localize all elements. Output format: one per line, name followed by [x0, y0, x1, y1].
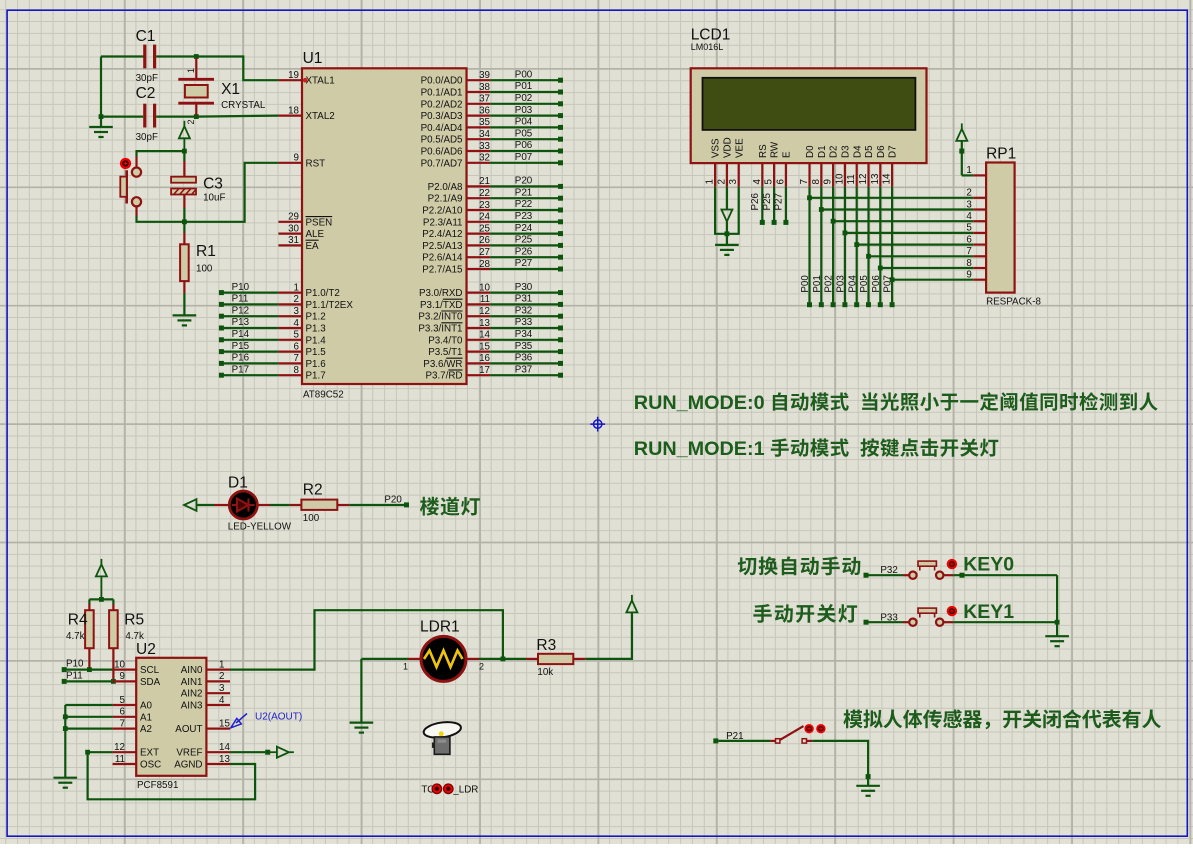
svg-text:1: 1 — [219, 659, 224, 670]
wire A1 to ground rail — [65, 716, 112, 718]
svg-text:P1.0/T2: P1.0/T2 — [306, 288, 340, 299]
svg-text:P1.5: P1.5 — [306, 347, 327, 358]
svg-text:D3: D3 — [841, 145, 852, 158]
svg-text:OSC: OSC — [140, 760, 161, 771]
svg-text:P0.1/AD1: P0.1/AD1 — [421, 88, 463, 99]
svg-text:P11: P11 — [66, 670, 83, 681]
annotation 模拟人体传感器 — [843, 710, 862, 729]
terminal P25 — [490, 244, 558, 246]
wire net D6 to RP1 pin 8 and terminal P06 — [879, 187, 881, 303]
svg-text:P0.3/AD3: P0.3/AD3 — [421, 111, 463, 122]
terminal P34 — [490, 339, 558, 341]
svg-text:P23: P23 — [515, 211, 533, 222]
svg-text:ALE: ALE — [306, 229, 325, 240]
svg-text:P25: P25 — [515, 235, 533, 246]
svg-text:P1.4: P1.4 — [306, 335, 327, 346]
origin marker — [594, 420, 602, 428]
svg-text:6: 6 — [294, 341, 300, 352]
terminal P10 — [62, 667, 67, 672]
svg-text:VDD: VDD — [723, 137, 734, 158]
svg-text:P04: P04 — [515, 117, 533, 128]
svg-text:RST: RST — [306, 158, 326, 169]
terminal P12 — [224, 315, 279, 317]
svg-text:RS: RS — [758, 144, 769, 158]
svg-text:8: 8 — [811, 179, 822, 185]
svg-text:P0.2/AD2: P0.2/AD2 — [421, 99, 463, 110]
svg-text:7: 7 — [294, 353, 299, 364]
svg-text:39: 39 — [479, 70, 490, 81]
wire LCD VEE to ground — [727, 187, 739, 234]
resistor R5 — [109, 610, 118, 648]
terminal P26 — [490, 256, 558, 258]
svg-text:3: 3 — [294, 306, 300, 317]
svg-text:1: 1 — [186, 68, 196, 73]
svg-text:6: 6 — [966, 234, 972, 245]
svg-text:12: 12 — [479, 306, 490, 317]
terminal P26 — [761, 187, 763, 220]
svg-text:P33: P33 — [515, 317, 533, 328]
svg-text:R3: R3 — [536, 637, 556, 654]
node junction pullup rail — [99, 597, 104, 602]
power VDD down-arrow wire — [726, 187, 728, 210]
svg-text:P3.7/RD: P3.7/RD — [425, 371, 462, 382]
svg-text:P1.7: P1.7 — [306, 371, 326, 382]
svg-text:EXT: EXT — [140, 748, 159, 759]
svg-text:P2.3/A11: P2.3/A11 — [423, 217, 463, 228]
LCD LCD1 LM016L — [691, 68, 927, 163]
wire C1 right to XTAL1 node — [156, 55, 196, 57]
svg-text:12: 12 — [114, 742, 125, 753]
svg-text:P1.3: P1.3 — [306, 324, 327, 335]
svg-text:P36: P36 — [515, 353, 533, 364]
svg-text:P07: P07 — [883, 275, 894, 292]
svg-text:11: 11 — [846, 174, 857, 184]
terminal P03 — [490, 114, 558, 116]
ground (U2 address) — [54, 777, 78, 779]
svg-text:_LDR: _LDR — [452, 784, 478, 795]
svg-text:D7: D7 — [888, 145, 899, 158]
svg-text:D1: D1 — [228, 475, 248, 492]
svg-text:22: 22 — [479, 188, 490, 199]
svg-text:CRYSTAL: CRYSTAL — [221, 100, 266, 111]
svg-text:P0.6/AD6: P0.6/AD6 — [421, 147, 463, 158]
svg-text:SDA: SDA — [140, 677, 161, 688]
wire C2 right to XTAL2 node — [156, 115, 196, 117]
svg-text:P00: P00 — [800, 275, 811, 293]
svg-text:38: 38 — [479, 82, 490, 93]
svg-text:P1.1/T2EX: P1.1/T2EX — [306, 300, 354, 311]
power +5V (RP1) — [956, 129, 967, 141]
terminal P20 — [349, 504, 404, 506]
svg-text:14: 14 — [479, 330, 490, 341]
wire RST net — [184, 163, 278, 222]
svg-text:23: 23 — [479, 200, 490, 211]
wire arrow to D1 — [197, 504, 215, 506]
wire KEY0 to ground net — [960, 573, 965, 578]
svg-text:1: 1 — [294, 282, 299, 293]
svg-text:LM016L: LM016L — [691, 42, 724, 52]
annotation 切换自动手动 — [738, 557, 757, 575]
svg-text:SCL: SCL — [140, 665, 160, 676]
terminal P27 — [785, 187, 787, 220]
terminal P35 — [490, 351, 558, 353]
wire LDR pin1 to ground — [361, 659, 408, 723]
terminal P30 — [490, 292, 558, 294]
svg-text:37: 37 — [479, 94, 490, 105]
svg-text:P1.2: P1.2 — [306, 312, 326, 323]
wire R4-R5 top rail — [89, 598, 113, 600]
annotation 楼道灯 — [420, 497, 439, 516]
svg-text:AIN0: AIN0 — [181, 665, 203, 676]
U2 pin stubs, numbers and names — [113, 668, 137, 670]
svg-text:4: 4 — [219, 695, 225, 706]
svg-text:33: 33 — [479, 141, 490, 152]
wire address ground vertical — [64, 705, 66, 778]
svg-text:EA: EA — [306, 241, 320, 252]
svg-text:VREF: VREF — [176, 748, 202, 759]
svg-text:E: E — [782, 151, 793, 158]
svg-text:2: 2 — [716, 179, 727, 184]
svg-text:P02: P02 — [515, 93, 532, 104]
svg-text:14: 14 — [219, 742, 230, 753]
svg-text:34: 34 — [479, 129, 490, 140]
svg-text:6: 6 — [120, 707, 126, 718]
LCD1 pin stubs, names and numbers — [714, 163, 716, 187]
wire KEY1 to ground net — [953, 621, 1057, 623]
LED D1 — [214, 504, 229, 506]
svg-text:P2.4/A12: P2.4/A12 — [422, 229, 462, 240]
push button RESET — [120, 158, 131, 169]
svg-text:P07: P07 — [515, 152, 532, 163]
svg-text:27: 27 — [479, 247, 490, 258]
terminal P02 — [490, 103, 558, 105]
svg-text:P12: P12 — [232, 305, 249, 316]
svg-text:P27: P27 — [515, 258, 532, 269]
wire LCD VSS to ground — [715, 187, 727, 234]
svg-text:U2(AOUT): U2(AOUT) — [255, 712, 302, 723]
svg-text:P31: P31 — [515, 294, 532, 305]
svg-text:U1: U1 — [303, 50, 323, 67]
svg-text:12: 12 — [858, 174, 869, 185]
svg-text:35: 35 — [479, 117, 490, 128]
svg-text:RW: RW — [770, 141, 781, 158]
svg-text:R5: R5 — [124, 612, 144, 629]
svg-text:AGND: AGND — [174, 760, 202, 771]
resistor R1 — [183, 222, 185, 233]
wire A0 to ground rail — [65, 704, 112, 706]
svg-text:P10: P10 — [232, 282, 250, 293]
node junction A1 — [63, 714, 68, 719]
svg-text:P05: P05 — [515, 128, 533, 139]
svg-text:VSS: VSS — [711, 138, 722, 158]
torch lamp icon — [423, 720, 462, 740]
svg-text:28: 28 — [479, 259, 490, 270]
wire XTAL1 net — [196, 57, 278, 81]
power +5V (R3) — [626, 600, 637, 612]
ground (sensor) — [867, 777, 869, 786]
wire AIN0 to LDR node — [230, 610, 503, 669]
svg-text:30pF: 30pF — [136, 73, 158, 84]
node junction R4-SCL — [87, 667, 92, 672]
svg-text:RESPACK-8: RESPACK-8 — [986, 297, 1041, 308]
terminal P14 — [224, 339, 279, 341]
resistor pack RP1 — [986, 163, 1015, 293]
svg-text:31: 31 — [288, 235, 299, 246]
svg-text:P3.0/RXD: P3.0/RXD — [419, 288, 463, 299]
terminal P31 — [490, 303, 558, 305]
terminal P22 — [490, 209, 558, 211]
wire net D2 to RP1 pin 4 and terminal P02 — [832, 187, 834, 303]
svg-text:P3.1/TXD: P3.1/TXD — [420, 300, 462, 311]
svg-text:5: 5 — [294, 330, 300, 341]
svg-text:2: 2 — [966, 188, 971, 199]
svg-text:P0.0/AD0: P0.0/AD0 — [421, 76, 463, 87]
svg-text:R1: R1 — [196, 243, 216, 260]
svg-text:P14: P14 — [232, 329, 250, 340]
terminal P17 — [224, 374, 279, 376]
terminal P11 — [224, 303, 279, 305]
svg-text:P13: P13 — [232, 317, 250, 328]
terminal P37 — [490, 374, 558, 376]
svg-text:19: 19 — [288, 70, 299, 81]
svg-text:P2.1/A9: P2.1/A9 — [428, 194, 463, 205]
wire C2 left — [101, 115, 143, 117]
svg-text:13: 13 — [479, 318, 490, 329]
push button KEY0 — [864, 573, 869, 578]
svg-text:9: 9 — [294, 153, 299, 164]
terminal P06 — [490, 150, 558, 152]
switch SW-SPST (human sensor) — [770, 740, 775, 742]
svg-text:P3.4/T0: P3.4/T0 — [428, 335, 463, 346]
IC U1 AT89C52 — [302, 68, 467, 384]
terminal P05 — [490, 138, 558, 140]
wire LDR pin2 to R3 — [479, 658, 503, 660]
node junction R5-SDA — [111, 679, 116, 684]
svg-text:2: 2 — [186, 119, 196, 124]
svg-text:P27: P27 — [774, 193, 785, 210]
U1 left pin stubs, numbers and names — [278, 79, 302, 81]
terminal P36 — [490, 362, 558, 364]
svg-text:1: 1 — [705, 179, 716, 184]
node junction KEY ground — [1055, 620, 1060, 625]
svg-text:P00: P00 — [515, 69, 533, 80]
svg-text:P2.7/A15: P2.7/A15 — [422, 265, 463, 276]
wire ground rail vertical (C1-C2) — [100, 57, 102, 118]
svg-text:1: 1 — [403, 662, 408, 672]
terminal P20 — [490, 185, 558, 187]
svg-text:C3: C3 — [203, 176, 223, 193]
svg-text:KEY1: KEY1 — [963, 601, 1014, 623]
svg-text:XTAL2: XTAL2 — [306, 111, 335, 122]
svg-text:P35: P35 — [515, 341, 533, 352]
svg-text:9: 9 — [120, 671, 125, 682]
svg-text:A2: A2 — [140, 724, 152, 735]
svg-text:AOUT: AOUT — [175, 724, 202, 735]
node junction LDR-R3 — [501, 657, 506, 662]
svg-text:P24: P24 — [515, 223, 533, 234]
wire EXT to AGND loop — [88, 752, 256, 799]
ground (LDR) — [350, 721, 374, 723]
terminal P10 — [224, 292, 279, 294]
svg-text:P01: P01 — [515, 81, 532, 92]
svg-text:P30: P30 — [515, 282, 533, 293]
svg-text:10k: 10k — [537, 667, 553, 678]
svg-text:15: 15 — [479, 341, 490, 352]
svg-text:XTAL1: XTAL1 — [306, 76, 335, 87]
svg-text:P2.0/A8: P2.0/A8 — [428, 182, 463, 193]
resistor R3 — [526, 658, 538, 660]
output arrow terminal (lamp) — [184, 499, 197, 511]
terminal P15 — [224, 351, 279, 353]
svg-text:11: 11 — [115, 754, 125, 765]
svg-text:P2.5/A13: P2.5/A13 — [422, 241, 463, 252]
power +5V (reset) — [179, 126, 190, 138]
svg-text:26: 26 — [479, 235, 490, 246]
push button KEY1 — [864, 620, 869, 625]
svg-text:10: 10 — [834, 173, 845, 184]
svg-text:P20: P20 — [515, 176, 533, 187]
svg-text:P06: P06 — [515, 140, 533, 151]
svg-text:U2: U2 — [136, 641, 156, 658]
ground (R1) — [173, 314, 197, 316]
svg-text:P06: P06 — [871, 275, 882, 293]
wire XTAL2 net — [196, 116, 278, 117]
svg-text:4: 4 — [752, 179, 763, 185]
svg-text:29: 29 — [288, 212, 299, 223]
svg-text:8: 8 — [294, 365, 300, 376]
svg-text:AT89C52: AT89C52 — [303, 390, 344, 401]
terminal P01 — [490, 91, 558, 93]
wire net D0 to RP1 pin 2 and terminal P00 — [808, 187, 810, 303]
svg-text:P26: P26 — [515, 246, 533, 257]
svg-text:PSEN: PSEN — [306, 217, 333, 228]
wire net D5 to RP1 pin 7 and terminal P05 — [867, 187, 869, 303]
svg-text:VEE: VEE — [734, 138, 745, 158]
terminal P07 — [490, 162, 558, 164]
svg-text:P3.6/WR: P3.6/WR — [423, 359, 462, 370]
svg-text:A1: A1 — [140, 712, 152, 723]
wire net D3 to RP1 pin 5 and terminal P03 — [844, 187, 846, 303]
svg-text:2: 2 — [219, 671, 224, 682]
svg-text:D1: D1 — [817, 145, 828, 158]
IC U2 PCF8591 — [136, 658, 206, 776]
node junction crystal pin2 — [194, 114, 199, 119]
svg-text:25: 25 — [479, 223, 490, 234]
wire net D7 to RP1 pin 9 and terminal P07 — [891, 187, 893, 303]
capacitor C3 — [183, 151, 185, 161]
terminal P27 — [490, 268, 558, 270]
svg-text:2: 2 — [479, 662, 484, 672]
LDR LDR1 — [421, 636, 466, 681]
ground (LCD) — [726, 234, 728, 245]
wire net D4 to RP1 pin 6 and terminal P04 — [856, 187, 858, 303]
svg-text:4: 4 — [294, 318, 300, 329]
svg-text:P22: P22 — [515, 199, 532, 210]
wire reset top to button — [137, 151, 185, 156]
svg-text:P1.6: P1.6 — [306, 359, 327, 370]
svg-text:13: 13 — [870, 173, 881, 184]
svg-text:P10: P10 — [66, 659, 84, 670]
svg-text:RP1: RP1 — [986, 146, 1016, 163]
ground (crystal caps) — [100, 117, 102, 127]
svg-text:C2: C2 — [136, 85, 156, 102]
svg-text:P0.5/AD5: P0.5/AD5 — [421, 135, 463, 146]
svg-text:11: 11 — [480, 294, 490, 305]
svg-text:3: 3 — [219, 683, 225, 694]
svg-text:LCD1: LCD1 — [691, 27, 731, 44]
svg-text:9: 9 — [966, 270, 971, 281]
svg-text:P3.5/T1: P3.5/T1 — [428, 347, 462, 358]
svg-text:P2.6/A14: P2.6/A14 — [422, 253, 463, 264]
svg-text:5: 5 — [966, 223, 972, 234]
resistor R2 — [290, 504, 302, 506]
svg-text:4: 4 — [966, 211, 972, 222]
svg-text:17: 17 — [479, 365, 490, 376]
svg-text:P15: P15 — [232, 341, 250, 352]
terminal P04 — [490, 126, 558, 128]
svg-text:13: 13 — [219, 754, 230, 765]
svg-text:P3.2/INT0: P3.2/INT0 — [418, 312, 463, 323]
svg-text:P32: P32 — [515, 305, 532, 316]
svg-text:18: 18 — [288, 105, 299, 116]
svg-text:P11: P11 — [232, 294, 249, 305]
svg-text:36: 36 — [479, 105, 490, 116]
svg-text:AIN2: AIN2 — [181, 689, 203, 700]
svg-text:14: 14 — [882, 173, 893, 184]
svg-text:P26: P26 — [750, 193, 761, 211]
svg-text:P03: P03 — [515, 105, 533, 116]
svg-text:10: 10 — [479, 282, 490, 293]
svg-text:P0.7/AD7: P0.7/AD7 — [421, 158, 463, 169]
wire R3 to power — [585, 612, 632, 659]
svg-text:RUN_MODE:1: RUN_MODE:1 — [634, 438, 765, 460]
svg-text:7: 7 — [120, 718, 125, 729]
terminal P24 — [490, 233, 558, 235]
svg-text:P21: P21 — [515, 187, 532, 198]
svg-text:P2.2/A10: P2.2/A10 — [422, 206, 463, 217]
svg-text:D4: D4 — [852, 145, 863, 158]
terminal P33 — [490, 327, 558, 329]
svg-text:D6: D6 — [876, 145, 887, 158]
svg-text:P03: P03 — [836, 275, 847, 293]
svg-text:10: 10 — [114, 659, 125, 670]
svg-text:D2: D2 — [829, 145, 840, 158]
svg-text:P0.4/AD4: P0.4/AD4 — [421, 123, 463, 134]
svg-text:P25: P25 — [762, 193, 773, 211]
annotation 手动开关灯 — [753, 604, 771, 623]
svg-text:5: 5 — [764, 179, 775, 185]
svg-text:15: 15 — [219, 718, 230, 729]
svg-text:16: 16 — [479, 353, 490, 364]
U1 right pin stubs, numbers and names — [467, 79, 491, 81]
svg-text:4.7k: 4.7k — [66, 631, 85, 642]
svg-text:P17: P17 — [232, 364, 249, 375]
svg-text:9: 9 — [823, 179, 834, 184]
svg-text:P16: P16 — [232, 353, 250, 364]
wire A2 to ground rail — [65, 727, 112, 729]
probe U2(AOUT) — [231, 714, 247, 728]
svg-text:X1: X1 — [221, 81, 240, 98]
node junction C3 bottom — [182, 219, 187, 224]
svg-text:P05: P05 — [859, 275, 870, 293]
capacitor C1 — [143, 45, 146, 69]
svg-text:3: 3 — [728, 179, 739, 185]
svg-text:100: 100 — [303, 513, 320, 524]
svg-text:P02: P02 — [824, 275, 835, 292]
svg-text:7: 7 — [966, 246, 971, 257]
node junction sensor ground — [866, 774, 871, 779]
svg-text:KEY0: KEY0 — [963, 553, 1014, 575]
